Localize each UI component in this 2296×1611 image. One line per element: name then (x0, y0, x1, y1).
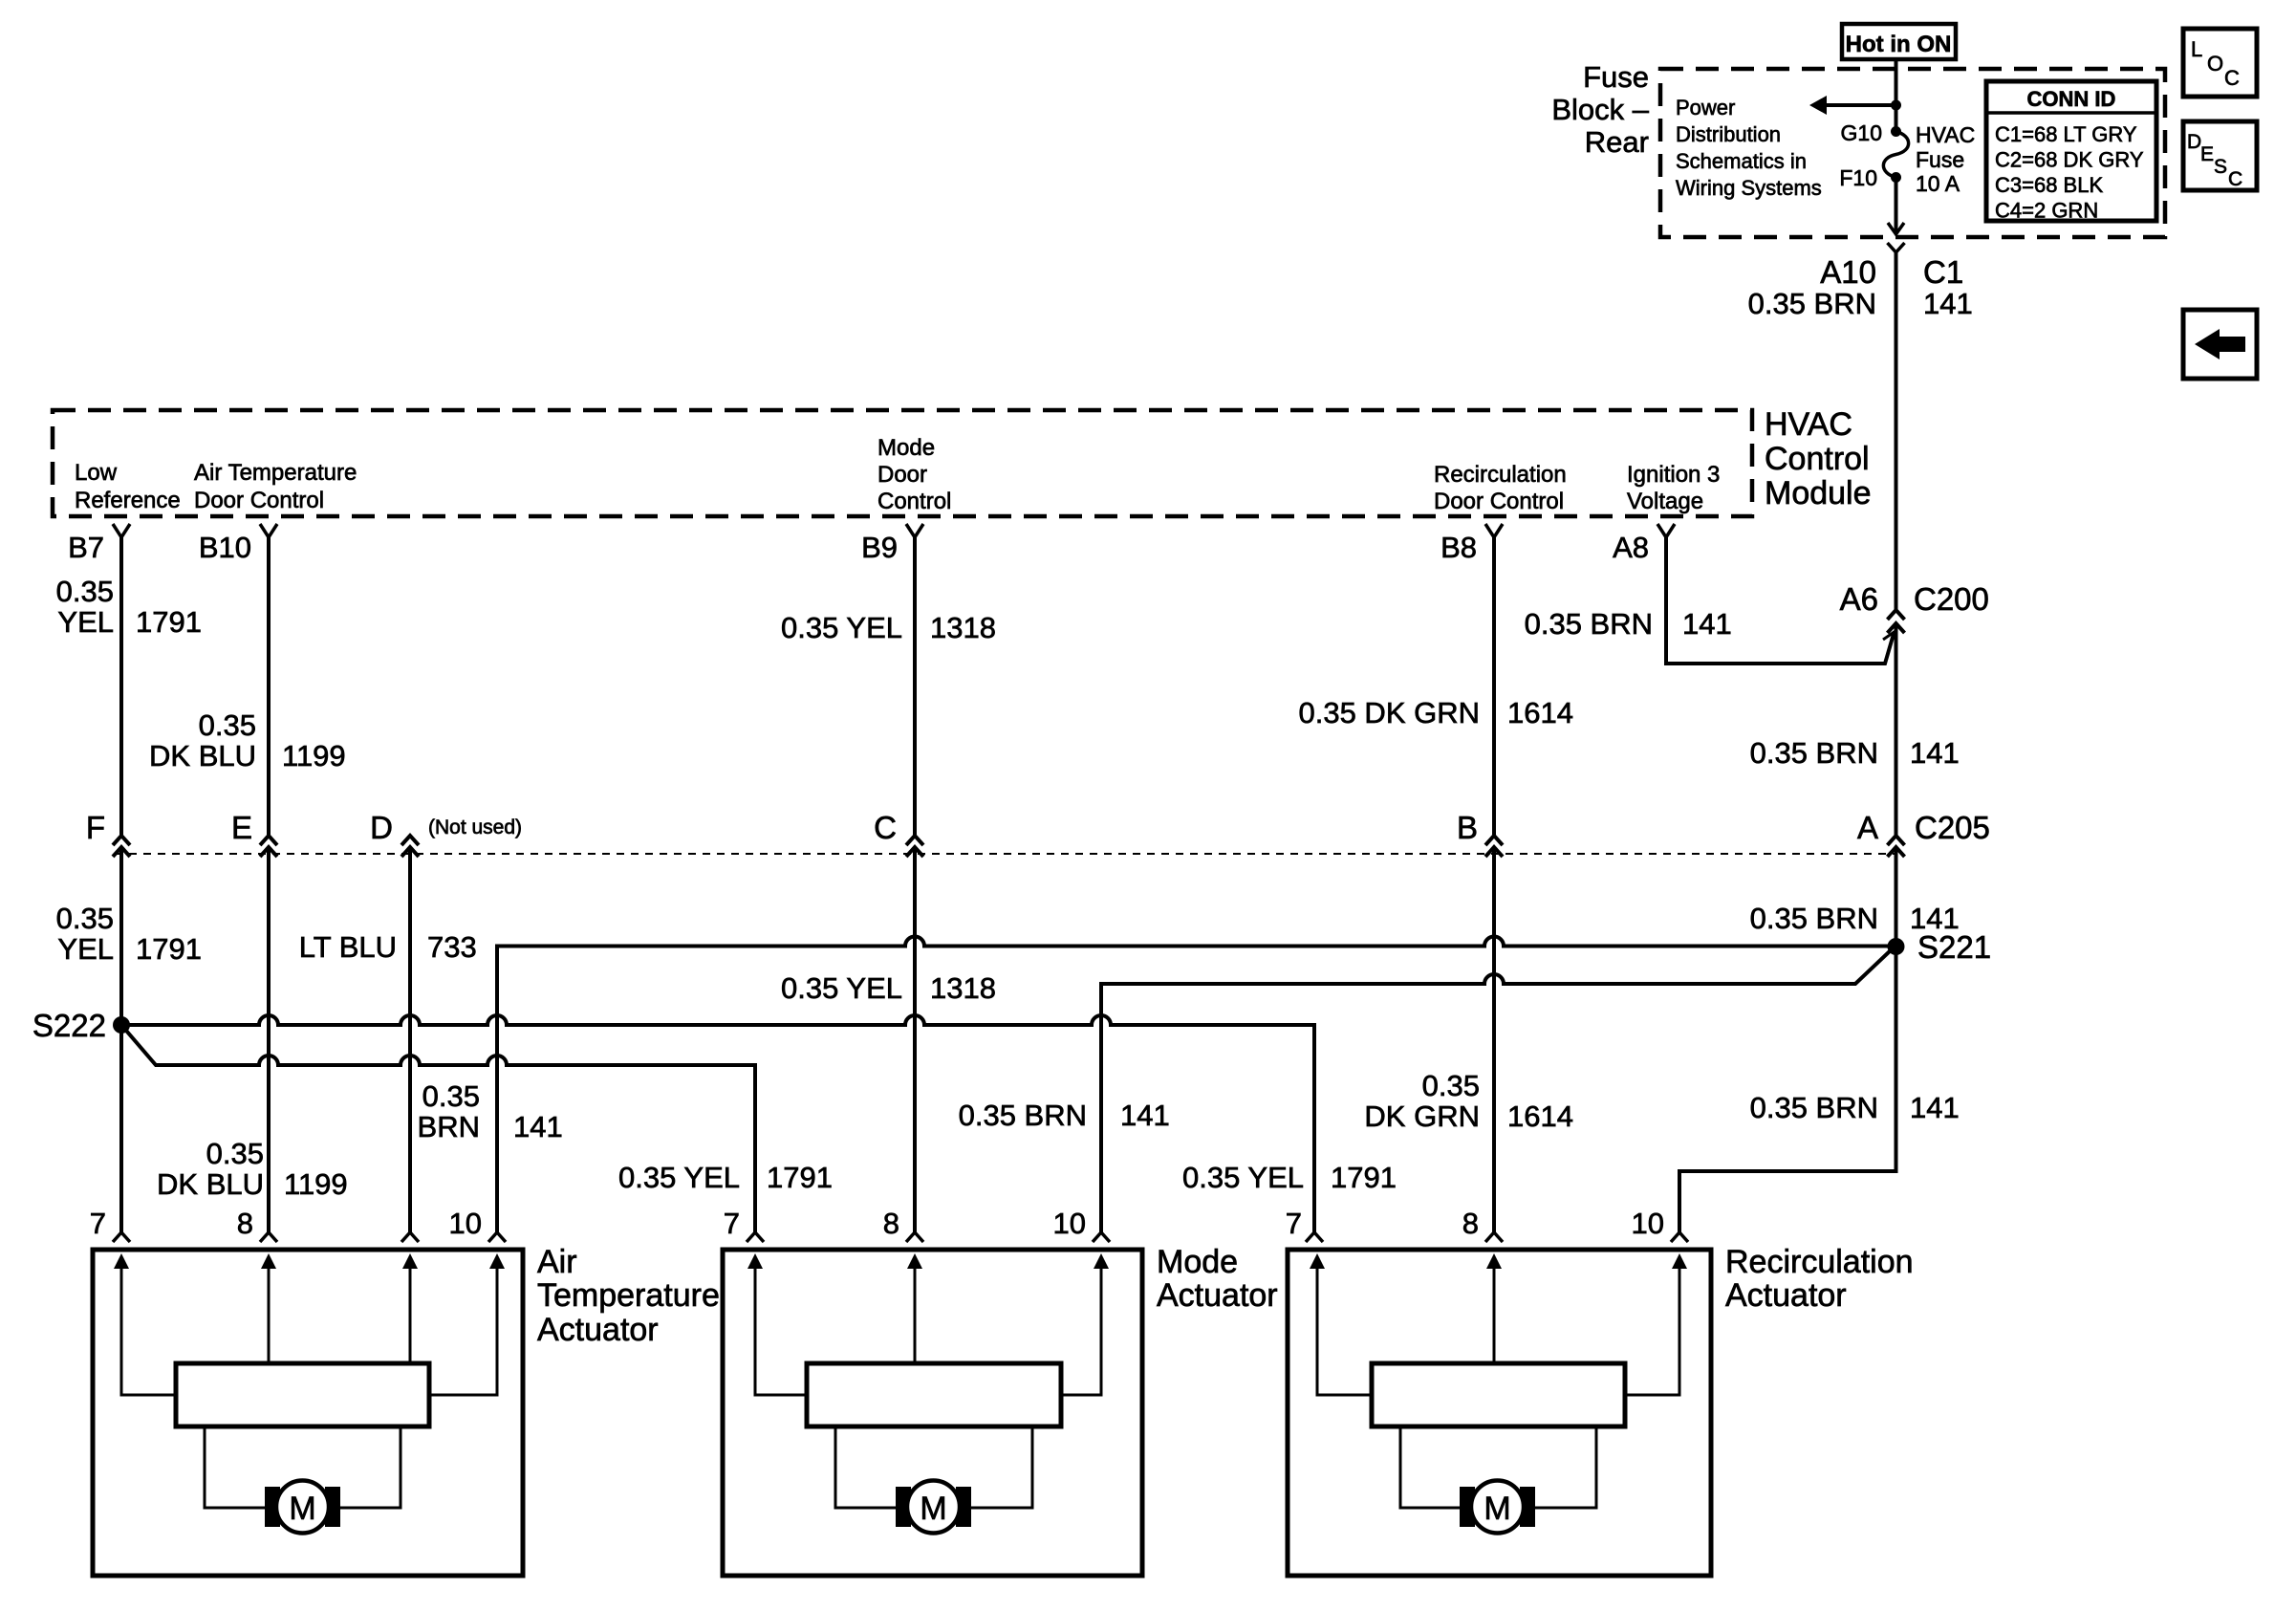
svg-text:0.35 BRN: 0.35 BRN (1750, 1091, 1878, 1124)
svg-text:G10: G10 (1841, 120, 1882, 145)
svg-text:S222: S222 (32, 1008, 106, 1043)
svg-text:C1=68 LT GRY: C1=68 LT GRY (1995, 122, 2137, 146)
svg-text:DK BLU: DK BLU (157, 1167, 264, 1201)
wire label 0.35 BRN 141 (recirc pin 10) (1750, 1091, 1960, 1124)
svg-text:0.35 BRN: 0.35 BRN (959, 1099, 1087, 1132)
wire YEL 1791 branch from S222 to mode actuator pin 7 (hops over E D 10 wires) (121, 1025, 755, 1232)
actuator pin fork nc (air temp) (401, 1232, 419, 1242)
svg-text:1199: 1199 (284, 1167, 348, 1201)
wire label 0.35 YEL 1791 (below C205) (56, 902, 202, 966)
actuator pin fork 10 (mode) (1093, 1232, 1110, 1242)
actuator pin fork 10 (recirc) (1671, 1232, 1688, 1242)
svg-text:CONN ID: CONN ID (2027, 87, 2116, 111)
module pin fork B8 (1485, 524, 1503, 537)
pin function Recirculation Door Control (1434, 462, 1567, 514)
connector C1 (fork) (1888, 243, 1905, 252)
svg-text:0.35 BRN: 0.35 BRN (1750, 736, 1878, 770)
wire label 0.35 BRN 141 (below C205) (1750, 902, 1960, 935)
wire BRN 141 from S221 down to recirculation actuator pin 10 (1679, 947, 1896, 1232)
wire YEL 1791 B7 to C205-F (119, 537, 123, 835)
connector C205 dashed harness line (115, 853, 1896, 855)
svg-text:0.35: 0.35 (56, 902, 114, 935)
svg-text:0.35 YEL: 0.35 YEL (781, 971, 902, 1005)
CONN ID table (1986, 81, 2156, 223)
svg-text:1318: 1318 (930, 971, 996, 1005)
svg-text:1791: 1791 (767, 1161, 833, 1194)
svg-text:Actuator: Actuator (1725, 1277, 1847, 1314)
svg-text:DK BLU: DK BLU (149, 739, 256, 773)
svg-text:141: 141 (1682, 607, 1732, 641)
mode internal pin arrow 7 (747, 1253, 807, 1395)
pin function Ignition 3 Voltage (1627, 462, 1720, 514)
wire label 0.35 DK GRN 1614 (below C205) (1364, 1069, 1573, 1133)
svg-text:S221: S221 (1917, 929, 1991, 965)
wire from Hot in ON down to fuse (1895, 59, 1898, 132)
svg-text:(Not used): (Not used) (428, 816, 522, 838)
svg-text:Recirculation: Recirculation (1434, 462, 1567, 488)
svg-text:Door Control: Door Control (1434, 489, 1564, 514)
svg-text:0.35: 0.35 (422, 1079, 480, 1113)
svg-text:141: 141 (1120, 1099, 1170, 1132)
svg-text:B9: B9 (861, 531, 898, 564)
HVAC Control Module dashed box (53, 410, 1752, 516)
note Power Distribution Schematics in Wiring Systems (1676, 96, 1822, 200)
connector C205 pin D chevrons (401, 836, 419, 857)
svg-text:Ignition 3: Ignition 3 (1627, 462, 1720, 488)
wire label 0.35 DK BLU 1199 (149, 708, 346, 773)
module pin fork B10 (260, 524, 277, 537)
svg-text:C205: C205 (1915, 810, 1990, 845)
svg-text:Block –: Block – (1551, 93, 1649, 126)
svg-text:Voltage: Voltage (1627, 489, 1703, 514)
pin label A6 / C200 (1840, 581, 1989, 617)
wire label LT BLU 733 (299, 930, 477, 964)
connector C205 pin C chevrons (906, 836, 923, 857)
svg-text:HVAC: HVAC (1765, 406, 1852, 443)
pin function Mode Door Control (877, 435, 951, 514)
junction node at fuse feed (1891, 100, 1901, 111)
mode actuator box (723, 1250, 1142, 1576)
svg-text:733: 733 (427, 930, 477, 964)
motor M (air temp) (265, 1481, 340, 1534)
svg-text:F10: F10 (1839, 165, 1877, 190)
wire label 0.35 DK BLU 1199 (below C205) (157, 1137, 348, 1201)
svg-text:0.35 BRN: 0.35 BRN (1748, 287, 1876, 320)
recirc internal pin arrow 8 (1486, 1253, 1502, 1363)
wire label 0.35 BRN 141 (air temp pin 10) (418, 1079, 563, 1143)
svg-text:Mode: Mode (877, 435, 935, 461)
wire YEL 1791 C205-F to S222 to actuator pin 7 (119, 849, 123, 1232)
splice node S222 (113, 1016, 130, 1034)
air temp internal pin arrow 7 (114, 1253, 176, 1395)
mode motor wire right (971, 1426, 1032, 1508)
mode position sensor block (807, 1363, 1061, 1426)
svg-text:10: 10 (1632, 1207, 1664, 1240)
svg-text:C: C (874, 810, 897, 845)
air temp motor wire left (205, 1426, 265, 1508)
svg-text:141: 141 (1923, 287, 1973, 320)
recirc internal pin arrow 10 (1625, 1253, 1687, 1395)
motor M (recirc) (1460, 1481, 1535, 1534)
DESC box (2183, 121, 2257, 190)
wire 141 BRN from C200 to C205-A (1895, 625, 1898, 835)
svg-text:0.35: 0.35 (1422, 1069, 1480, 1102)
actuator pin fork 8 (air temp) (260, 1232, 277, 1242)
wire DK BLU 1199 C205-E to actuator pin 8 (267, 849, 271, 1232)
svg-text:0.35: 0.35 (199, 708, 256, 742)
svg-text:B: B (1457, 810, 1478, 845)
wire BRN 141 C205-A to S221 (1895, 849, 1898, 947)
svg-text:Schematics in: Schematics in (1676, 149, 1807, 173)
actuator pin fork 8 (mode) (906, 1232, 923, 1242)
svg-text:E: E (2200, 143, 2214, 165)
svg-text:1199: 1199 (282, 739, 346, 773)
recirc internal pin arrow 7 (1310, 1253, 1372, 1395)
fuse value label (1916, 122, 1975, 196)
LOC box (2183, 29, 2257, 97)
wire YEL 1318 C205-C to actuator pin 8 (913, 849, 917, 1232)
air temp position sensor block (176, 1363, 429, 1426)
svg-text:Fuse: Fuse (1583, 60, 1649, 94)
mode motor wire left (835, 1426, 896, 1508)
svg-text:Mode: Mode (1157, 1244, 1238, 1280)
wire label 0.35 YEL 1791 (recirc pin 7) (1182, 1161, 1397, 1194)
svg-text:0.35 YEL: 0.35 YEL (618, 1161, 740, 1194)
svg-text:141: 141 (1910, 1091, 1960, 1124)
fuse block - rear dashed box (1660, 69, 2165, 237)
svg-text:10: 10 (449, 1207, 482, 1240)
wire DK GRN 1614 C205-B to actuator pin 8 (1492, 849, 1496, 1232)
actuator pin fork 8 (recirc) (1485, 1232, 1503, 1242)
svg-text:Distribution: Distribution (1676, 122, 1781, 146)
svg-text:C2=68 DK GRY: C2=68 DK GRY (1995, 148, 2144, 172)
svg-text:0.35 BRN: 0.35 BRN (1750, 902, 1878, 935)
svg-text:Fuse: Fuse (1916, 147, 1964, 172)
svg-text:B7: B7 (68, 531, 104, 564)
svg-text:M: M (1484, 1491, 1510, 1527)
svg-text:0.35 BRN: 0.35 BRN (1525, 607, 1653, 641)
svg-text:7: 7 (90, 1207, 106, 1240)
svg-text:Actuator: Actuator (1157, 1277, 1278, 1314)
svg-text:7: 7 (724, 1207, 740, 1240)
svg-text:1791: 1791 (136, 932, 202, 966)
svg-text:Control: Control (1765, 441, 1870, 477)
svg-text:141: 141 (1910, 736, 1960, 770)
wire label 0.35 YEL 1791 (mode pin 7) (618, 1161, 833, 1194)
svg-text:10: 10 (1053, 1207, 1086, 1240)
svg-text:0.35 YEL: 0.35 YEL (781, 611, 902, 644)
wire label 0.35 BRN 141 (C1 segment) (1748, 287, 1973, 320)
svg-text:Hot in ON: Hot in ON (1846, 32, 1952, 57)
wire BRN 141 from A8 to C200 (1666, 537, 1894, 664)
actuator pin fork 7 (mode) (747, 1232, 764, 1242)
recirc position sensor block (1372, 1363, 1625, 1426)
svg-text:141: 141 (513, 1110, 563, 1143)
svg-text:C200: C200 (1914, 581, 1989, 617)
svg-text:Air Temperature: Air Temperature (194, 460, 357, 486)
wire label 0.35 YEL 1318 (below C205) (781, 971, 996, 1005)
svg-text:Actuator: Actuator (537, 1312, 659, 1348)
wire DK GRN 1614 B8 to C205-B (1492, 537, 1496, 835)
pin function Air Temperature Door Control (194, 460, 357, 513)
svg-text:D: D (370, 810, 393, 845)
wire label 0.35 BRN 141 (above C205) (1750, 736, 1960, 770)
svg-text:8: 8 (237, 1207, 253, 1240)
Hot in ON box (1842, 24, 1956, 59)
svg-text:A10: A10 (1820, 254, 1876, 290)
svg-text:O: O (2207, 52, 2223, 76)
wire BRN 141 from S221 to mode actuator pin 10 (diagonal into S221, hop over B wire) (1101, 949, 1892, 1232)
svg-text:0.35: 0.35 (206, 1137, 264, 1170)
mode internal pin arrow 8 (907, 1253, 922, 1363)
wire label 0.35 YEL 1318 (781, 611, 996, 644)
svg-text:Low: Low (75, 460, 118, 486)
connector C205 pin E chevrons (260, 836, 277, 857)
wire LT BLU 733 C205-D to actuator (408, 849, 412, 1232)
recirc motor wire left (1400, 1426, 1460, 1508)
svg-text:B10: B10 (199, 531, 251, 564)
connector C205 pin F chevrons (113, 836, 130, 857)
svg-text:Reference: Reference (75, 488, 181, 513)
air temp internal pin arrow nc (402, 1253, 418, 1363)
svg-text:0.35: 0.35 (56, 575, 114, 608)
mode internal pin arrow 10 (1061, 1253, 1109, 1395)
svg-text:8: 8 (1462, 1207, 1479, 1240)
module pin fork B7 (113, 524, 130, 537)
svg-text:1791: 1791 (136, 605, 202, 639)
svg-text:B8: B8 (1440, 531, 1477, 564)
splice node S221 (1888, 938, 1905, 955)
svg-text:Recirculation: Recirculation (1725, 1244, 1914, 1280)
svg-text:L: L (2191, 37, 2202, 61)
wire label 0.35 YEL 1791 (56, 575, 202, 639)
svg-text:0.35 DK GRN: 0.35 DK GRN (1298, 696, 1480, 729)
label Fuse Block - Rear (1551, 60, 1649, 159)
svg-text:Temperature: Temperature (537, 1277, 720, 1314)
pin label A10 / C1 (1820, 254, 1963, 290)
svg-text:8: 8 (883, 1207, 899, 1240)
svg-text:Power: Power (1676, 96, 1735, 120)
svg-text:DK GRN: DK GRN (1364, 1099, 1480, 1133)
actuator pin fork 10 (air temp) (488, 1232, 506, 1242)
svg-text:Door Control: Door Control (194, 488, 324, 513)
wire label 0.35 BRN 141 (A8 segment) (1525, 607, 1732, 641)
actuator pin fork 7 (recirc) (1306, 1232, 1323, 1242)
svg-text:Air: Air (537, 1244, 577, 1280)
module pin fork A8 (1657, 524, 1675, 537)
wire YEL 1318 B9 to C205-C (913, 537, 917, 835)
svg-text:YEL: YEL (57, 932, 114, 966)
svg-text:C4=2 GRN: C4=2 GRN (1995, 199, 2098, 223)
wire from fuse to connector C1 (1895, 178, 1898, 235)
air temp internal pin arrow 10 (429, 1253, 505, 1395)
svg-text:1791: 1791 (1331, 1161, 1397, 1194)
svg-text:Door: Door (877, 462, 927, 488)
svg-text:Module: Module (1765, 475, 1872, 512)
svg-text:Wiring Systems: Wiring Systems (1676, 176, 1822, 200)
back arrow box (2183, 310, 2257, 379)
svg-text:1614: 1614 (1507, 696, 1573, 729)
svg-text:YEL: YEL (57, 605, 114, 639)
svg-text:C1: C1 (1923, 254, 1963, 290)
svg-text:C3=68 BLK: C3=68 BLK (1995, 173, 2103, 197)
air temp internal pin arrow 8 (261, 1253, 276, 1363)
svg-text:Rear: Rear (1585, 125, 1649, 159)
wire DK BLU 1199 B10 to C205-E (267, 537, 271, 835)
pin function Low Reference (75, 460, 181, 513)
recirculation actuator box (1288, 1250, 1711, 1576)
label Recirculation Actuator (1725, 1244, 1914, 1314)
svg-text:E: E (231, 810, 252, 845)
svg-text:F: F (86, 810, 105, 845)
connector C205 pin A chevrons (1888, 836, 1905, 857)
motor M (mode) (896, 1481, 971, 1534)
svg-text:C: C (2228, 168, 2242, 190)
svg-text:C: C (2224, 66, 2240, 90)
connector C205 pin B chevrons (1485, 836, 1503, 857)
recirc motor wire right (1535, 1426, 1596, 1508)
module pin fork B9 (906, 524, 923, 537)
svg-text:A8: A8 (1613, 531, 1649, 564)
svg-text:S: S (2214, 156, 2227, 178)
svg-text:0.35 YEL: 0.35 YEL (1182, 1161, 1304, 1194)
svg-text:M: M (289, 1491, 315, 1527)
svg-text:Control: Control (877, 489, 951, 514)
svg-text:7: 7 (1286, 1207, 1302, 1240)
svg-text:1318: 1318 (930, 611, 996, 644)
label Air Temperature Actuator (537, 1244, 720, 1348)
fuse F10 HVAC Fuse 10 A (1883, 126, 1908, 183)
svg-text:A6: A6 (1840, 581, 1878, 617)
actuator pin fork 7 (air temp) (113, 1232, 130, 1242)
svg-text:10 A: 10 A (1916, 171, 1960, 196)
wire BRN 141 bus from S221 to air temp actuator pin 10 (hops over C and B wires) (497, 937, 1896, 1232)
wire 141 BRN from C1 to C200 (1895, 252, 1898, 609)
svg-text:A: A (1857, 810, 1878, 845)
svg-text:M: M (920, 1491, 946, 1527)
connector C200 (double chevron) (1888, 610, 1905, 633)
wire branch to other circuits (left arrow) (1822, 103, 1896, 107)
wire label 0.35 BRN 141 (mode pin 10) (959, 1099, 1170, 1132)
svg-text:D: D (2187, 131, 2201, 153)
wire YEL 1791 bus from S222 to recirculation actuator pin 7 (hops over E D 10 C 10 wires) (121, 1015, 1314, 1232)
wire label 0.35 DK GRN 1614 (1298, 696, 1572, 729)
label HVAC Control Module (1765, 406, 1872, 512)
label Mode Actuator (1157, 1244, 1278, 1314)
svg-text:LT BLU: LT BLU (299, 930, 397, 964)
svg-text:HVAC: HVAC (1916, 122, 1975, 147)
air temperature actuator box (93, 1250, 523, 1576)
svg-text:1614: 1614 (1507, 1099, 1573, 1133)
svg-text:BRN: BRN (418, 1110, 480, 1143)
air temp motor wire right (340, 1426, 401, 1508)
